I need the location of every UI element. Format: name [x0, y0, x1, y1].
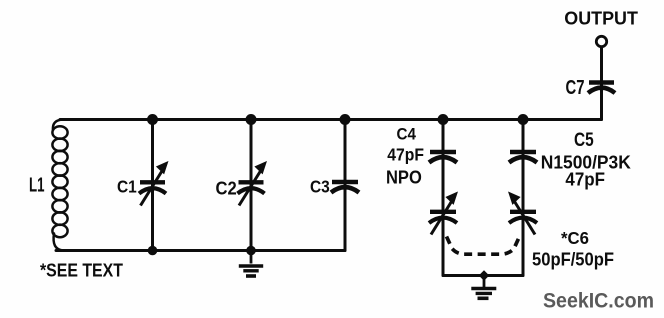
- svg-text:NPO: NPO: [386, 167, 422, 187]
- svg-text:C2: C2: [216, 179, 237, 199]
- wire C5 branch: [522, 120, 525, 276]
- wire top bus: [60, 118, 602, 121]
- svg-text:OUTPUT: OUTPUT: [564, 9, 638, 29]
- capacitor C4: [429, 152, 457, 163]
- inductor L1: [52, 120, 67, 251]
- capacitor C1 (variable): [139, 163, 167, 206]
- wire C2 branch: [250, 120, 253, 251]
- node junction C5 top: [518, 114, 529, 125]
- wire left bottom bus: [56, 249, 345, 252]
- svg-text:C1: C1: [117, 176, 137, 196]
- capacitor C7: [588, 83, 615, 94]
- node junction ground right: [479, 270, 489, 280]
- ground right: [471, 276, 496, 299]
- C6 gang link (dashed): [447, 237, 520, 255]
- ground left: [239, 251, 263, 277]
- wire right bottom: [443, 274, 523, 277]
- svg-text:*SEE TEXT: *SEE TEXT: [40, 260, 123, 280]
- svg-text:L1: L1: [29, 175, 45, 197]
- svg-text:C5: C5: [574, 129, 594, 151]
- capacitor C5: [509, 152, 537, 163]
- capacitor C3: [331, 182, 359, 193]
- capacitor C2 (variable): [238, 163, 266, 206]
- svg-text:SeekIC.com: SeekIC.com: [543, 289, 654, 313]
- node junction C4 top: [438, 114, 449, 125]
- node junction C1 bottom: [148, 246, 158, 256]
- wire output branch: [600, 47, 603, 120]
- svg-text:C4: C4: [397, 124, 417, 143]
- node junction C1 top: [147, 114, 158, 125]
- svg-text:47pF: 47pF: [565, 170, 605, 190]
- capacitor C6 right section (variable): [509, 193, 537, 234]
- svg-text:47pF: 47pF: [387, 145, 424, 165]
- wire C1 branch: [151, 120, 154, 251]
- node junction C3 top: [340, 114, 351, 125]
- node junction C2 bottom: [246, 246, 256, 256]
- wire C4 branch: [442, 120, 445, 276]
- output terminal: [596, 36, 606, 46]
- svg-text:50pF/50pF: 50pF/50pF: [532, 249, 614, 269]
- wire C3 branch: [344, 120, 347, 251]
- capacitor C6 left section (variable): [429, 193, 457, 234]
- svg-text:C7: C7: [566, 76, 585, 99]
- svg-text:*C6: *C6: [561, 228, 589, 248]
- node junction C2 top: [246, 114, 257, 125]
- svg-text:C3: C3: [310, 176, 330, 196]
